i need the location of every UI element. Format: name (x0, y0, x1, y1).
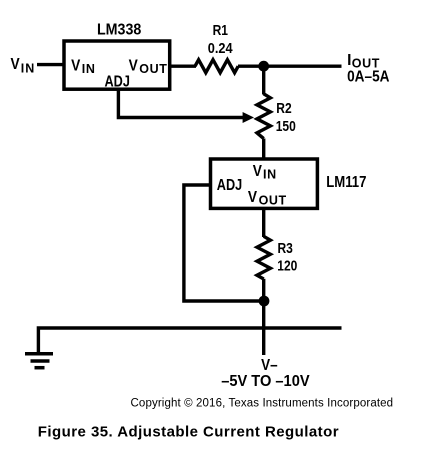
svg-text:IN: IN (263, 168, 277, 182)
svg-text:LM117: LM117 (326, 174, 366, 191)
pin label VOUT of U2 (248, 188, 287, 207)
svg-text:OUT: OUT (259, 194, 287, 208)
resistor R1 (195, 60, 238, 73)
svg-text:ADJ: ADJ (217, 177, 242, 194)
pin label VIN of U2 (253, 162, 277, 181)
svg-text:LM338: LM338 (97, 21, 141, 39)
wire VIN input to U1 (37, 63, 66, 66)
svg-text:V: V (248, 188, 257, 206)
svg-text:Figure 35. Adjustable Current: Figure 35. Adjustable Current Regulator (38, 424, 339, 441)
svg-text:I: I (347, 52, 351, 69)
wiper arrow head into R2 (243, 112, 254, 123)
svg-text:0.24: 0.24 (208, 40, 233, 56)
ground symbol (25, 354, 53, 368)
svg-text:120: 120 (277, 257, 297, 273)
svg-text:R3: R3 (278, 240, 293, 256)
svg-text:IN: IN (21, 62, 36, 76)
wire U2 VOUT to R3 (262, 208, 265, 237)
wire junction to R2 (262, 66, 265, 94)
svg-text:–5V TO –10V: –5V TO –10V (221, 373, 309, 390)
label IOUT (347, 52, 380, 70)
node VIN input label (11, 55, 36, 76)
resistor R3 (257, 236, 270, 279)
svg-text:V: V (71, 56, 80, 74)
svg-text:0A–5A: 0A–5A (347, 69, 390, 86)
pin label VOUT of U1 (129, 56, 168, 75)
svg-text:OUT: OUT (139, 62, 167, 76)
wire U2 ADJ loop to bottom junction (184, 185, 261, 301)
svg-text:V: V (129, 56, 138, 74)
junction node above V- (259, 296, 270, 307)
pin label VIN of U1 (71, 56, 95, 75)
wire junction through ground bus to V- terminal (262, 301, 265, 355)
wire U1 ADJ down and right to R2 wiper (118, 89, 244, 118)
IC U2 LM117 box (211, 159, 318, 208)
resistor R2 (rheostat) (257, 94, 270, 139)
svg-text:R1: R1 (213, 22, 229, 38)
wire R2 to U2 VIN (262, 139, 265, 162)
svg-text:IN: IN (82, 62, 96, 76)
wire R3 to bottom junction (262, 279, 265, 301)
svg-text:V: V (11, 55, 20, 73)
junction node at R2 top (258, 61, 269, 72)
svg-text:V–: V– (261, 357, 277, 374)
svg-text:R2: R2 (276, 100, 291, 116)
wire U1 VOUT to R1 (170, 64, 196, 67)
svg-text:Copyright © 2016, Texas Instru: Copyright © 2016, Texas Instruments Inco… (131, 397, 394, 409)
svg-text:V: V (253, 162, 262, 180)
ground bus wire (38, 328, 341, 352)
wire R1 to IOUT (238, 64, 342, 67)
svg-text:ADJ: ADJ (105, 73, 130, 90)
IC U1 LM338 box (64, 41, 170, 89)
svg-text:150: 150 (276, 118, 296, 134)
